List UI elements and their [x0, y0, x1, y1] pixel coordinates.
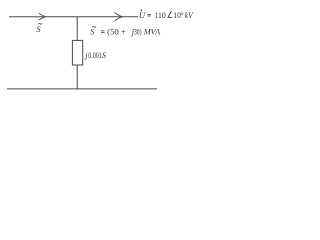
- node voltage label U = 110∠10° kV: [139, 9, 194, 20]
- wire top bus: [9, 16, 138, 18]
- angle symbol: [168, 11, 172, 17]
- svg-text:0.001: 0.001: [88, 51, 102, 60]
- shunt element box (susceptance): [72, 40, 82, 65]
- svg-text:U: U: [139, 10, 146, 20]
- svg-text:110: 110: [154, 10, 165, 20]
- arrow head on top wire (power flow S): [39, 13, 46, 20]
- svg-text:°: °: [180, 10, 183, 20]
- svg-text:30): 30): [134, 27, 142, 37]
- svg-text:kV: kV: [185, 10, 194, 20]
- svg-text:MVA: MVA: [143, 27, 161, 37]
- svg-text:S: S: [90, 27, 95, 37]
- arrow head near voltage label: [115, 13, 123, 21]
- svg-text:(50 +: (50 +: [107, 27, 126, 37]
- value label j0.001S: [84, 51, 106, 60]
- wire vertical branch (bottom): [76, 65, 78, 89]
- wire vertical branch (top): [76, 17, 78, 41]
- svg-text:S: S: [36, 24, 41, 34]
- svg-text:S: S: [102, 51, 106, 60]
- wire bottom bus / ground return: [7, 88, 157, 90]
- label S~ (power flow): [36, 23, 42, 33]
- label S~ = (50+j30)MVA: [90, 27, 161, 37]
